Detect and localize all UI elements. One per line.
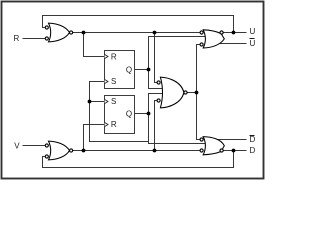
wire S line: FF1 S and FF2 S down to G5 middle net — [90, 82, 149, 142]
pin wedge FF1 R — [105, 55, 108, 59]
bubble G5 input top — [200, 138, 203, 141]
wire FF2 S stub — [90, 101, 105, 103]
svg-text:U: U — [250, 27, 256, 36]
pin wedge FF1 S — [105, 80, 108, 84]
svg-text:S: S — [111, 97, 116, 106]
junction FF2 Q — [147, 112, 151, 116]
wire output D-bar — [216, 139, 247, 141]
wire FF2 Q output — [135, 113, 149, 115]
svg-text:R: R — [111, 52, 117, 61]
bubble G1 input top — [45, 26, 48, 29]
gate G2 (V input gate, AND with inverted inputs) — [49, 141, 70, 160]
gate G5 (output gate for D-bar / D) — [203, 137, 224, 155]
junction node A / G3 top — [153, 31, 157, 35]
pin wedge FF2 S — [105, 100, 108, 104]
wire top feedback from U node to gate G1 top input — [43, 16, 234, 33]
bubble G4 input bottom — [200, 43, 203, 46]
wire input V — [23, 145, 45, 147]
wire output U — [223, 32, 246, 34]
junction D feedback — [232, 149, 236, 153]
bubble G5 output — [220, 149, 223, 152]
wire G3 output to G4 bottom input and G5 top input — [187, 45, 200, 140]
wire node B: G2 output to G5 bottom input — [73, 150, 200, 152]
wire output U-bar — [216, 43, 247, 45]
wire node A: G1 output to G4 top input — [73, 32, 200, 34]
junction node B / G3 bottom — [153, 149, 157, 153]
wire G2 output junction up to FF2 R input — [84, 125, 105, 151]
wire node A junction down to G3 top input — [155, 33, 158, 83]
bubble G1 input bottom — [45, 37, 48, 40]
junction G1 output / FF1 R — [82, 31, 86, 35]
wire input R — [23, 38, 45, 40]
bubble G2 input top — [45, 144, 48, 147]
flip-flop FF1 box — [105, 51, 135, 89]
junction G3 output — [195, 91, 199, 95]
bubble G5 input bottom — [200, 149, 203, 152]
junction S line at FF2 S — [88, 100, 92, 104]
bubble G4 input top — [200, 31, 203, 34]
svg-text:V: V — [14, 141, 20, 150]
flip-flop FF2 box — [105, 96, 135, 134]
wire FF2 Q net: to G3 input and G5 middle input — [149, 94, 207, 144]
junction FF1 Q — [147, 68, 151, 72]
svg-text:U: U — [250, 39, 256, 48]
wire FF1 Q output — [135, 69, 149, 71]
wire FF1 Q net: to G4 middle input and G3 input — [149, 37, 207, 89]
junction G2 output / FF2 R — [82, 149, 86, 153]
bubble G3 output — [184, 91, 187, 94]
bubble G3 input bottom — [157, 99, 160, 102]
bubble G2 input bottom — [45, 155, 48, 158]
bubble G2 output — [70, 149, 73, 152]
pin wedge FF2 R — [105, 123, 108, 127]
wire output D — [223, 150, 246, 152]
wire bottom feedback from D node to gate G2 bottom input — [43, 151, 234, 168]
junction U feedback — [232, 31, 236, 35]
bubble G1 output — [70, 31, 73, 34]
svg-text:R: R — [14, 34, 20, 43]
bubble G3 input top — [157, 81, 160, 84]
border frame — [2, 2, 264, 179]
gate G1 (R input gate, AND with inverted inputs) — [49, 23, 70, 42]
gate G3 (middle 4-input gate) — [160, 77, 184, 108]
svg-text:D: D — [250, 135, 256, 144]
gate G4 (output gate for U / U-bar) — [203, 30, 224, 48]
svg-text:D: D — [250, 146, 256, 155]
bubble G4 output — [220, 31, 223, 34]
svg-text:R: R — [111, 120, 117, 129]
svg-text:Q: Q — [126, 65, 132, 74]
wire G1 output junction down to FF1 R input — [84, 33, 105, 57]
wire node B junction up to G3 bottom input — [155, 101, 158, 151]
svg-text:Q: Q — [126, 109, 132, 118]
svg-text:S: S — [111, 77, 116, 86]
